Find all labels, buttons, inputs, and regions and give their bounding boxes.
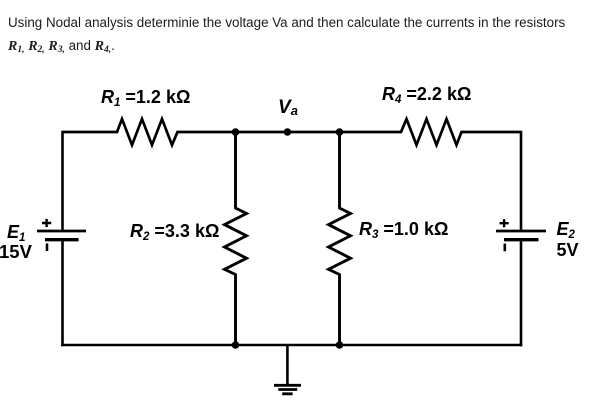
problem statement line 1 (8, 15, 565, 30)
battery E2 minus tick (503, 244, 506, 252)
node dot (Va node) (284, 128, 292, 136)
wire: left vertical (E1 bottom) (61, 241, 64, 346)
battery E1 minus tick (46, 243, 49, 251)
battery E2 plus sign (500, 219, 509, 227)
node label Va (278, 98, 298, 117)
label R4 value (382, 85, 471, 103)
wire: bottom run (61, 344, 522, 347)
wire: top run with resistor R1 and resistor R4 zigzags (63, 119, 522, 145)
battery E1 plates (37, 230, 86, 233)
node dot (R2 bottom junction) (232, 341, 240, 349)
wire: right vertical (E2 top) (520, 131, 523, 230)
label R1 value (101, 88, 190, 106)
node dot (R2 top junction) (232, 128, 240, 136)
label R2 value (130, 222, 219, 240)
resistor R3 (vertical zigzag) with wires (329, 132, 351, 345)
battery E2 plates (496, 230, 546, 233)
problem statement line 2 (8, 38, 115, 55)
wire: right vertical (E2 bottom) (520, 241, 523, 346)
resistor R2 (vertical zigzag) with wires (225, 132, 247, 345)
label E2 (557, 220, 575, 238)
battery E1 plus sign (42, 219, 51, 227)
ground (286, 345, 289, 385)
label E2 voltage (557, 241, 579, 259)
label E1 (7, 223, 25, 241)
node dot (R3 bottom junction) (336, 341, 344, 349)
label E1 voltage (0, 243, 32, 262)
label R3 value (359, 220, 448, 238)
wire: left vertical (E1 top) (61, 131, 64, 230)
node dot (R3 top junction) (336, 128, 344, 136)
